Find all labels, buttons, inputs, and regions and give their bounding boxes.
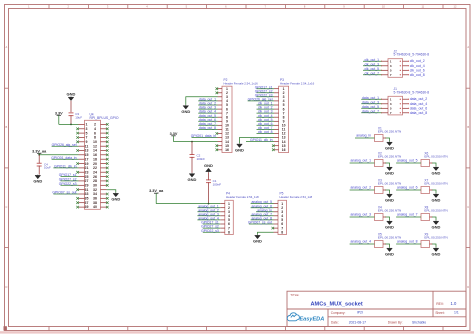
svg-text:A: A bbox=[6, 45, 8, 49]
wire and net label GPIO27_s2 at P4 bbox=[201, 225, 220, 229]
svg-text:Company:: Company: bbox=[331, 311, 346, 315]
svg-text:GND: GND bbox=[432, 251, 441, 256]
svg-text:Date:: Date: bbox=[331, 321, 339, 325]
X8 pin marks bbox=[430, 216, 433, 218]
ground below C2 bbox=[188, 173, 197, 182]
svg-text:analog_out_7: analog_out_7 bbox=[397, 213, 418, 217]
svg-text:D: D bbox=[5, 285, 7, 289]
svg-text:GPIO07_ss_out: GPIO07_ss_out bbox=[248, 221, 272, 225]
ground left of P3 bbox=[235, 143, 244, 152]
wire and net label data_out_8 at P2 bbox=[198, 126, 217, 130]
svg-text:data_out_4: data_out_4 bbox=[410, 102, 428, 106]
svg-text:GPIO11_clk_in: GPIO11_clk_in bbox=[250, 138, 273, 142]
wire and net label clk_out_6 at P3 bbox=[257, 122, 275, 126]
svg-text:3.3V_aa: 3.3V_aa bbox=[149, 189, 164, 193]
X5 pin marks bbox=[383, 243, 386, 245]
svg-text:2021-08-17: 2021-08-17 bbox=[349, 320, 366, 324]
connector J1 5-794630-8 socket body bbox=[388, 96, 403, 115]
wire and net label data_out_3 at J1 left bbox=[361, 100, 381, 104]
svg-text:C: C bbox=[5, 205, 7, 209]
wire and net label data_out_6 at P2 bbox=[198, 118, 217, 122]
svg-text:Shchablo: Shchablo bbox=[412, 320, 426, 324]
wire and net label analog_out_1 at X2 bbox=[350, 159, 375, 163]
connector X5 EPL.00.250.NTN body bbox=[375, 241, 384, 248]
wire and net label data_out_7 at J1 left bbox=[361, 109, 381, 113]
svg-text:clk_out_7: clk_out_7 bbox=[364, 71, 379, 75]
svg-text:GND: GND bbox=[385, 251, 394, 256]
wire and net label GPIO17_s1 at P4 bbox=[201, 221, 220, 225]
svg-text:clk_out_1: clk_out_1 bbox=[364, 58, 379, 62]
svg-text:27: 27 bbox=[85, 179, 89, 183]
svg-text:16: 16 bbox=[225, 148, 229, 152]
connector X2 EPL.00.250.NTN body bbox=[375, 160, 384, 167]
wire U4 pin 32 to ground bbox=[107, 190, 116, 193]
svg-text:GPIO11_clk_in: GPIO11_clk_in bbox=[54, 165, 77, 169]
svg-text:analog_out_5: analog_out_5 bbox=[397, 159, 418, 163]
wire X9 pin 2 to ground bbox=[432, 244, 436, 247]
svg-text:3.3V: 3.3V bbox=[55, 111, 63, 115]
svg-text:clk_out_8: clk_out_8 bbox=[410, 73, 425, 77]
P2 pins 1-16 bbox=[218, 88, 223, 90]
wire X5 pin 2 to ground bbox=[386, 244, 390, 247]
power flag 3.3V left of U4 bbox=[55, 111, 63, 124]
svg-text:RPI_BPLUS_GPIO: RPI_BPLUS_GPIO bbox=[90, 116, 119, 120]
svg-text:10uF: 10uF bbox=[75, 115, 82, 119]
J2 pins bbox=[382, 60, 389, 62]
svg-text:GPIO01_data_in: GPIO01_data_in bbox=[191, 134, 216, 138]
wire and net label GPIO17_s1 at U4 pin bbox=[59, 173, 79, 177]
svg-text:analog_out_8: analog_out_8 bbox=[397, 240, 418, 244]
wire and net label data_out_3 at P2 bbox=[198, 106, 217, 110]
svg-text:1/1: 1/1 bbox=[454, 311, 459, 315]
net label data_out_6 at J1 right bbox=[410, 106, 428, 110]
wire and net label clk_out_3 at P3 bbox=[257, 110, 275, 114]
svg-text:GPIO22_s3: GPIO22_s3 bbox=[59, 182, 77, 186]
svg-text:data_out_7: data_out_7 bbox=[362, 109, 379, 113]
svg-text:B: B bbox=[6, 125, 8, 129]
connector X7 EPL.00.250.NTN body bbox=[421, 187, 430, 194]
wire and net label GPIO11_clk_in at U4 pin bbox=[53, 165, 78, 169]
ground below P5 bbox=[253, 235, 262, 244]
wire and net label analog_out_2 at X3 bbox=[350, 186, 375, 190]
X1 pin marks bbox=[383, 137, 386, 139]
svg-text:16: 16 bbox=[282, 148, 286, 152]
svg-text:10uF: 10uF bbox=[44, 166, 51, 170]
wire 3.3V to U4 pin 1 bbox=[59, 123, 79, 125]
wire X4 pin 2 to ground bbox=[386, 217, 390, 220]
svg-text:analog_out_1: analog_out_1 bbox=[350, 159, 371, 163]
svg-text:6: 6 bbox=[94, 131, 96, 135]
wire and net label GPIO01_data_in at P2 pin 13 bbox=[191, 134, 218, 138]
svg-text:23: 23 bbox=[85, 170, 89, 174]
wire and net label GPIO07_ss_out at P5 bbox=[248, 221, 274, 225]
wire and net label GPIO01_data_in at U4 pin bbox=[51, 156, 78, 160]
svg-text:18: 18 bbox=[93, 157, 97, 161]
ground flag above C3 bbox=[67, 91, 76, 112]
svg-text:data_out_3: data_out_3 bbox=[362, 100, 379, 104]
wire and net label GPIO11_clk_in at P3 pin 14 bbox=[246, 138, 274, 142]
capacitor C1 bbox=[206, 179, 221, 204]
wire and net label analog_out_4 at P4 bbox=[197, 217, 220, 221]
svg-text:IP2I: IP2I bbox=[357, 311, 363, 315]
connector X6 EPL.00.250.NTN body bbox=[421, 160, 430, 167]
wire and net label clk_out_1 at P3 bbox=[257, 102, 275, 106]
svg-text:GND: GND bbox=[235, 147, 244, 152]
svg-text:12: 12 bbox=[454, 5, 457, 9]
svg-text:data_out_2: data_out_2 bbox=[410, 97, 428, 101]
U4 pins and pin numbers 1-40 bbox=[79, 123, 85, 125]
wire P3 pin 13 to ground bbox=[240, 138, 275, 144]
net label data_out_8 at J1 right bbox=[410, 111, 428, 115]
wire 3.3V_aa to P4 pin 1 bbox=[156, 203, 220, 205]
svg-text:Drawn By:: Drawn By: bbox=[388, 321, 403, 325]
svg-text:GND: GND bbox=[385, 197, 394, 202]
wire and net label GPIO27_s2 at P3 bbox=[255, 89, 274, 93]
wire P2 pin 3 to ground bbox=[186, 97, 218, 105]
X4 pin marks bbox=[383, 216, 386, 218]
wire and net label analog_out_3 at P4 bbox=[197, 212, 220, 216]
wire and net label data_out_2 at P2 bbox=[198, 102, 217, 106]
svg-text:GND: GND bbox=[111, 197, 120, 202]
wire and net label analog_out_7 at X8 bbox=[396, 213, 421, 217]
svg-text:17: 17 bbox=[85, 157, 89, 161]
svg-text:35: 35 bbox=[85, 197, 89, 201]
svg-text:24: 24 bbox=[93, 170, 97, 174]
ground flag above C1 bbox=[204, 163, 213, 180]
wire and net label analog_out_5 at P5 bbox=[251, 200, 274, 204]
svg-text:28: 28 bbox=[93, 179, 97, 183]
ground below X2 bbox=[385, 166, 394, 175]
svg-text:analog_out_3: analog_out_3 bbox=[350, 213, 371, 217]
wire and net label analog_out_6 at X7 bbox=[396, 186, 421, 190]
svg-text:EPL.00.250.NTN: EPL.00.250.NTN bbox=[424, 155, 447, 159]
capacitor C4 bbox=[37, 155, 51, 175]
wire and net label analog_out_8 at P5 bbox=[251, 217, 274, 221]
svg-text:12: 12 bbox=[93, 144, 97, 148]
node junction at C2 bbox=[191, 141, 193, 143]
svg-text:GND: GND bbox=[385, 224, 394, 229]
wire and net label clk_out_4 at P3 bbox=[257, 114, 275, 118]
wire and net label analog_in at X1 bbox=[355, 134, 375, 138]
connector X8 EPL.00.250.NTN body bbox=[421, 214, 430, 221]
wire and net label analog_out_1 at P4 bbox=[197, 204, 220, 208]
capacitor C3 bbox=[69, 112, 83, 124]
svg-text:EPL.00.250.NTN: EPL.00.250.NTN bbox=[424, 182, 447, 186]
ground below X8 bbox=[432, 220, 441, 229]
svg-text:GND: GND bbox=[385, 145, 394, 150]
svg-text:5-794630-8_5-794630-8: 5-794630-8_5-794630-8 bbox=[394, 53, 430, 57]
IC U4 RPI_BPLUS_GPIO header body bbox=[85, 120, 101, 209]
wire and net label GPIO17_s1 at P3 bbox=[255, 85, 274, 89]
svg-text:clk_out_8: clk_out_8 bbox=[258, 130, 273, 134]
svg-text:5: 5 bbox=[186, 5, 188, 9]
svg-text:100nF: 100nF bbox=[213, 182, 222, 186]
connector P5 Header Female 2.54_1x8 body bbox=[278, 200, 287, 234]
wire P5 pin 8 to ground bbox=[258, 232, 274, 234]
svg-text:36: 36 bbox=[93, 197, 97, 201]
svg-text:GPIO22_s3: GPIO22_s3 bbox=[201, 229, 219, 233]
svg-text:GPIO26_alg_sel: GPIO26_alg_sel bbox=[52, 143, 77, 147]
X2 pin marks bbox=[383, 162, 386, 164]
wire and net label clk_out_5 at J2 left bbox=[363, 67, 382, 71]
net label data_out_2 at J1 right bbox=[410, 97, 428, 101]
power flag 3.3V near P2 bbox=[170, 132, 178, 142]
svg-text:EPL.00.250.NTN: EPL.00.250.NTN bbox=[378, 130, 401, 134]
net label data_out_4 at J1 right bbox=[410, 102, 428, 106]
connector X9 EPL.00.250.NTN body bbox=[421, 241, 430, 248]
wire and net label GPIO22_s3 at U4 pin bbox=[59, 182, 79, 186]
ground below X6 bbox=[432, 166, 441, 175]
wire and net label analog_out_8 at X9 bbox=[396, 240, 421, 244]
connector P4 Header Female 2.54_1x8 body bbox=[225, 200, 234, 234]
net label clk_out_4 at J2 right bbox=[410, 64, 425, 68]
ground below C4 bbox=[33, 175, 42, 184]
svg-text:clk_out_5: clk_out_5 bbox=[364, 67, 379, 71]
svg-text:2: 2 bbox=[67, 5, 69, 9]
svg-text:11: 11 bbox=[421, 5, 424, 9]
connector J2 5-794630-8 socket body bbox=[388, 59, 403, 78]
svg-text:data_out_8: data_out_8 bbox=[199, 126, 216, 130]
net label clk_out_8 at J2 right bbox=[410, 73, 425, 77]
J1 pins bbox=[382, 98, 389, 100]
svg-text:analog_out_4: analog_out_4 bbox=[350, 240, 371, 244]
ground below X9 bbox=[432, 247, 441, 256]
svg-text:GND: GND bbox=[432, 197, 441, 202]
wire and net label clk_out_3 at J2 left bbox=[363, 62, 382, 66]
svg-text:Sheet:: Sheet: bbox=[435, 311, 444, 315]
svg-text:GND: GND bbox=[204, 163, 213, 168]
net label clk_out_2 at J2 right bbox=[410, 59, 425, 63]
wire and net label analog_out_4 at X5 bbox=[350, 240, 375, 244]
svg-text:Header Female 2.54_1x16: Header Female 2.54_1x16 bbox=[224, 82, 259, 86]
wire and net label clk_out_8 at P3 bbox=[257, 130, 275, 134]
P4 pins 1-8 bbox=[220, 203, 225, 205]
svg-text:Header Female 2.54_1x8: Header Female 2.54_1x8 bbox=[226, 195, 259, 199]
wire and net label analog_out_5 at X6 bbox=[396, 159, 421, 163]
svg-text:GPIO01_data_in: GPIO01_data_in bbox=[51, 156, 76, 160]
wire X8 pin 2 to ground bbox=[432, 217, 436, 220]
wire X3 pin 2 to ground bbox=[386, 190, 390, 193]
wire X7 pin 2 to ground bbox=[432, 190, 436, 193]
svg-text:15: 15 bbox=[85, 153, 89, 157]
svg-text:7: 7 bbox=[264, 5, 266, 9]
svg-text:3: 3 bbox=[107, 5, 109, 9]
svg-text:GND: GND bbox=[385, 170, 394, 175]
title block bbox=[287, 291, 466, 326]
wire and net label GPIO27_s2 at U4 pin bbox=[59, 178, 79, 182]
svg-text:REV:: REV: bbox=[436, 302, 444, 306]
wire and net label analog_in at P5 bbox=[256, 208, 274, 212]
wire and net label analog_out_3 at X4 bbox=[350, 213, 375, 217]
X6 pin marks bbox=[430, 162, 433, 164]
X7 pin marks bbox=[430, 189, 433, 191]
svg-text:GND: GND bbox=[67, 91, 76, 96]
X9 pin marks bbox=[430, 243, 433, 245]
svg-text:1: 1 bbox=[28, 5, 30, 9]
svg-text:1.0: 1.0 bbox=[451, 301, 457, 306]
P5 pins 1-8 bbox=[274, 203, 279, 205]
svg-text:3.3V_aa: 3.3V_aa bbox=[32, 149, 47, 153]
wire and net label clk_out_5 at P3 bbox=[257, 118, 275, 122]
wire X2 pin 2 to ground bbox=[386, 163, 390, 166]
svg-text:AMCs_MUX_socket: AMCs_MUX_socket bbox=[311, 302, 363, 308]
wire and net label data_out_7 at P2 bbox=[198, 122, 217, 126]
svg-text:Header Female 2.54_1x8: Header Female 2.54_1x8 bbox=[280, 195, 313, 199]
X3 pin marks bbox=[383, 189, 386, 191]
svg-text:GND: GND bbox=[432, 224, 441, 229]
power flag 3.3V_aa bottom bbox=[149, 189, 164, 203]
svg-text:5: 5 bbox=[86, 131, 88, 135]
wire and net label clk_out_7 at P3 bbox=[257, 126, 275, 130]
wire and net label GPIO26_alg_sel at P3 bbox=[248, 98, 274, 102]
wire and net label clk_out_1 at J2 left bbox=[363, 58, 382, 62]
connector X3 EPL.00.250.NTN body bbox=[375, 187, 384, 194]
wire and net label data_out_4 at P2 bbox=[198, 110, 217, 114]
wire X6 pin 2 to ground bbox=[432, 163, 436, 166]
wire 3.3V to P2 pin 14 bbox=[174, 141, 218, 143]
wire and net label clk_out_7 at J2 left bbox=[363, 71, 382, 75]
svg-text:39: 39 bbox=[85, 205, 89, 209]
svg-text:C: C bbox=[467, 205, 469, 209]
svg-text:clk_out_6: clk_out_6 bbox=[410, 68, 425, 72]
svg-text:10: 10 bbox=[382, 5, 385, 9]
svg-text:31: 31 bbox=[85, 188, 89, 192]
svg-text:8: 8 bbox=[281, 230, 283, 234]
svg-text:B: B bbox=[467, 125, 469, 129]
wire and net label GPIO26_alg_sel at U4 pin bbox=[52, 143, 79, 147]
net label clk_out_6 at J2 right bbox=[410, 68, 425, 72]
connector X4 EPL.00.250.NTN body bbox=[375, 214, 384, 221]
svg-text:GND: GND bbox=[253, 239, 262, 244]
svg-text:5-794630-8_5-794630-8: 5-794630-8_5-794630-8 bbox=[394, 90, 430, 94]
wire and net label data_out_1 at P2 bbox=[198, 98, 217, 102]
svg-text:A: A bbox=[467, 45, 469, 49]
wire and net label data_out_1 at J1 left bbox=[361, 96, 381, 100]
ground below X4 bbox=[385, 220, 394, 229]
ground left of P2 bbox=[181, 105, 190, 114]
svg-text:EPL.00.250.NTN: EPL.00.250.NTN bbox=[424, 236, 447, 240]
power flag 3.3V_aa left bbox=[32, 149, 47, 155]
ground below X1 bbox=[385, 141, 394, 150]
ground below X7 bbox=[432, 193, 441, 202]
node junction C1 to 3.3V_aa rail bbox=[208, 203, 210, 205]
ground right of U4 bbox=[111, 193, 120, 202]
svg-text:9: 9 bbox=[343, 5, 345, 9]
svg-text:GPIO27_s2: GPIO27_s2 bbox=[59, 178, 77, 182]
P3 pins 1-16 bbox=[274, 88, 279, 90]
ground below X3 bbox=[385, 193, 394, 202]
svg-text:EasyEDA: EasyEDA bbox=[299, 316, 324, 322]
svg-text:100nF: 100nF bbox=[197, 157, 206, 161]
node junction at C3/pin1 bbox=[70, 124, 72, 126]
svg-text:clk_out_2: clk_out_2 bbox=[410, 59, 425, 63]
wire and net label clk_out_2 at P3 bbox=[257, 106, 275, 110]
svg-text:3: 3 bbox=[86, 127, 88, 131]
wire and net label GPIO07_ss_out at U4 pin bbox=[52, 191, 78, 195]
svg-text:analog_out_2: analog_out_2 bbox=[350, 186, 371, 190]
svg-text:GND: GND bbox=[181, 109, 190, 114]
wire X1 pin 2 to ground bbox=[386, 138, 390, 141]
wire and net label analog_out_7 at P5 bbox=[251, 212, 274, 216]
ground below X5 bbox=[385, 247, 394, 256]
svg-text:data_out_5: data_out_5 bbox=[362, 105, 379, 109]
svg-text:TITLE:: TITLE: bbox=[290, 293, 299, 297]
svg-text:D: D bbox=[467, 285, 469, 289]
svg-text:analog_in: analog_in bbox=[356, 134, 371, 138]
svg-text:data_out_1: data_out_1 bbox=[362, 96, 379, 100]
capacitor C2 bbox=[190, 142, 206, 173]
svg-text:data_out_6: data_out_6 bbox=[410, 106, 428, 110]
svg-text:clk_out_4: clk_out_4 bbox=[410, 64, 425, 68]
wire and net label data_out_5 at P2 bbox=[198, 114, 217, 118]
svg-text:8: 8 bbox=[304, 5, 306, 9]
node junction 3.3V_aa bbox=[38, 154, 40, 156]
svg-text:4: 4 bbox=[146, 5, 148, 9]
svg-text:EPL.00.250.NTN: EPL.00.250.NTN bbox=[424, 209, 447, 213]
svg-text:40: 40 bbox=[93, 205, 97, 209]
svg-text:GND: GND bbox=[33, 179, 42, 184]
svg-text:4: 4 bbox=[94, 127, 96, 131]
svg-text:data_out_8: data_out_8 bbox=[410, 111, 428, 115]
svg-text:clk_out_3: clk_out_3 bbox=[364, 62, 379, 66]
svg-text:8: 8 bbox=[228, 230, 230, 234]
svg-text:3.3V: 3.3V bbox=[170, 132, 178, 136]
svg-text:GND: GND bbox=[432, 170, 441, 175]
EasyEDA logo bbox=[287, 313, 324, 323]
svg-text:GND: GND bbox=[188, 177, 197, 182]
wire and net label analog_out_6 at P5 bbox=[251, 204, 274, 208]
svg-text:11: 11 bbox=[85, 144, 89, 148]
wire and net label analog_out_2 at P4 bbox=[197, 208, 220, 212]
svg-text:6: 6 bbox=[225, 5, 227, 9]
svg-text:GPIO07_ss_out: GPIO07_ss_out bbox=[52, 191, 76, 195]
svg-text:16: 16 bbox=[93, 153, 97, 157]
wire 3.3V_aa to U4 pin 15 bbox=[39, 154, 78, 156]
svg-text:Header Female 2.54_1x16: Header Female 2.54_1x16 bbox=[280, 82, 315, 86]
connector X1 EPL.00.250.NTN body bbox=[375, 135, 384, 142]
wire and net label data_out_5 at J1 left bbox=[361, 105, 381, 109]
svg-text:analog_out_6: analog_out_6 bbox=[397, 186, 418, 190]
wire and net label GPIO22_s3 at P3 bbox=[255, 93, 274, 97]
svg-text:32: 32 bbox=[93, 188, 97, 192]
connector P3 Header Female 2.54_1x16 body bbox=[279, 86, 289, 152]
connector P2 Header Female 2.54_1x16 body bbox=[222, 86, 232, 152]
wire and net label GPIO22_s3 at P4 bbox=[201, 229, 220, 233]
